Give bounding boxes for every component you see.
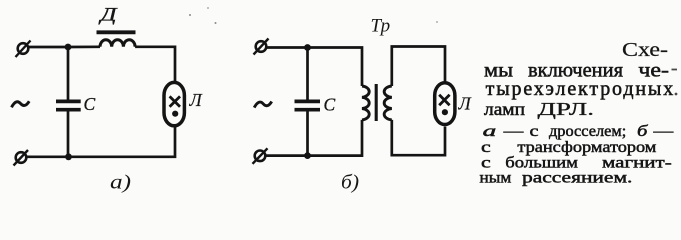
terminal top-left (circuit b) <box>254 39 269 55</box>
wire junction to inductor <box>68 45 100 48</box>
wire top-left to junction (circuit a) <box>29 46 69 49</box>
svg-text:с: с <box>530 123 539 140</box>
transformer core bar <box>375 84 378 121</box>
svg-text:C: C <box>324 95 336 115</box>
terminal bottom-left (circuit a) <box>14 150 29 166</box>
junction bottom (circuit a) <box>65 153 72 160</box>
wire secondary top loop <box>392 47 445 87</box>
wire junction to bottom-left terminal <box>27 155 69 158</box>
capacitor C (circuit a) lower lead <box>67 112 70 157</box>
terminal bottom-left (circuit b) <box>253 148 268 164</box>
caption line 4 <box>484 99 594 119</box>
lamp b cross electrode <box>439 95 449 105</box>
svg-text:ДРЛ.: ДРЛ. <box>538 99 595 119</box>
svg-text:рассеянием.: рассеянием. <box>522 170 632 187</box>
capacitor C (circuit b) lower lead <box>306 112 309 156</box>
lamp b dot electrode <box>442 109 448 115</box>
terminal top-left (circuit a) <box>16 41 31 58</box>
caption line 7 <box>481 154 672 171</box>
svg-text:б): б) <box>341 172 359 194</box>
caption line 5 <box>483 123 674 140</box>
svg-text:Л: Л <box>458 94 473 114</box>
caption line 6 <box>481 139 657 156</box>
svg-text:—: — <box>502 123 524 140</box>
wire top terminal to junction (circuit b) <box>267 46 308 49</box>
scan speck <box>215 22 217 24</box>
svg-text:с: с <box>481 139 491 156</box>
wire secondary bottom loop <box>392 120 445 155</box>
wire lamp to bottom-right corner to junction (circuit a) <box>69 127 176 157</box>
svg-text:—: — <box>652 123 674 140</box>
capacitor C (circuit b) upper lead <box>306 48 309 100</box>
AC source tilde (circuit b) <box>254 102 272 108</box>
lamp a dot electrode <box>172 111 178 117</box>
wire junction to transformer primary top <box>308 48 363 87</box>
svg-text:Л: Л <box>189 90 204 110</box>
svg-text:дросселем;: дросселем; <box>549 123 626 140</box>
svg-text:тырехэлектродных: тырехэлектродных <box>486 78 674 100</box>
inductor Д core bar <box>97 30 136 34</box>
svg-text:трансформатором: трансформатором <box>517 139 656 156</box>
transformer secondary winding <box>384 86 392 120</box>
wire primary winding to bottom corner to junction (circuit b) <box>308 120 363 156</box>
junction top (circuit a) <box>65 44 72 51</box>
svg-text:ным: ным <box>480 170 512 187</box>
lamp a cross electrode <box>170 96 180 106</box>
wire inductor to top-right corner and down to lamp <box>135 47 175 84</box>
svg-text:а): а) <box>110 172 131 194</box>
svg-text:б: б <box>637 123 649 140</box>
svg-text:а: а <box>483 123 497 140</box>
capacitor C (circuit a) plates <box>56 101 81 109</box>
junction top (circuit b) <box>304 44 311 51</box>
svg-text:C: C <box>84 94 96 114</box>
capacitor C (circuit b) plates <box>295 101 321 109</box>
transformer Тр primary winding <box>362 86 369 120</box>
scan speck <box>189 14 191 16</box>
scan artifact dash after line 2 <box>672 69 678 71</box>
wire junction to bottom terminal (circuit b) <box>266 154 308 157</box>
junction bottom (circuit b) <box>304 152 311 159</box>
svg-text:ламп: ламп <box>484 99 525 119</box>
AC source tilde (circuit a) <box>12 101 30 107</box>
capacitor C (circuit a) upper lead <box>67 47 70 100</box>
scan artifact period after line 3 <box>675 93 678 96</box>
caption line 8 <box>480 170 633 187</box>
caption line 2 <box>484 60 669 82</box>
scan speck <box>207 7 209 9</box>
lamp Л (circuit b) body <box>435 83 455 125</box>
svg-text:Д: Д <box>98 5 118 26</box>
inductor Д winding <box>100 40 135 47</box>
scan speck <box>436 21 438 23</box>
svg-text:Тр: Тр <box>371 16 391 37</box>
svg-text:Схе-: Схе- <box>622 39 668 61</box>
lamp Л (circuit a) body <box>164 82 184 125</box>
